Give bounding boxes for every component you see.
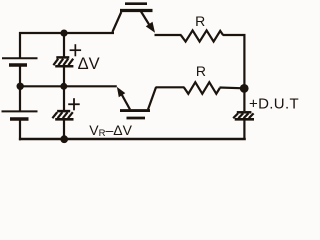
svg-text:+D.U.T: +D.U.T (249, 96, 299, 113)
svg-text:R: R (195, 13, 205, 29)
svg-text:ΔV: ΔV (78, 55, 100, 73)
svg-text:R: R (196, 63, 206, 79)
svg-text:VR–ΔV: VR–ΔV (89, 122, 132, 139)
